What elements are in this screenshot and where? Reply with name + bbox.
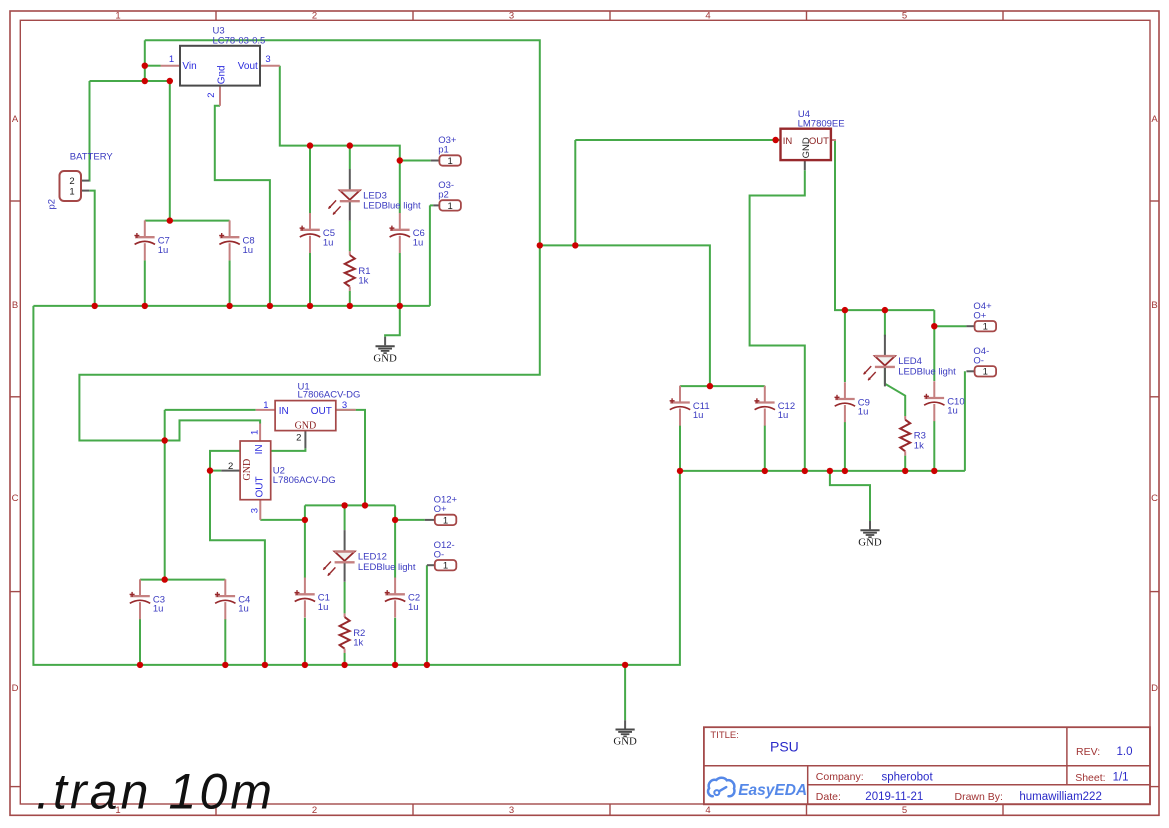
junction [226,303,232,309]
junction [137,662,143,668]
svg-text:Gnd: Gnd [216,65,227,84]
svg-text:4: 4 [705,805,710,816]
svg-text:3: 3 [249,508,260,513]
resistor R1 [345,251,371,291]
wire right section rail [680,470,965,472]
wire C2 bottom [394,618,396,665]
wire LED12 to R2 [344,582,346,614]
wire U4 out run [835,140,934,310]
wire U4 in [575,139,780,141]
O4+ pin stub [966,325,974,327]
svg-text:A: A [12,114,19,125]
connector O3+ p1 [438,135,461,167]
capacitor C4 [215,579,250,619]
capacitor C1 [295,578,330,618]
junction [827,468,833,474]
svg-text:EasyEDA: EasyEDA [738,782,807,799]
capacitor C9 [835,382,870,422]
battery connector P2 [47,151,114,209]
svg-text:1u: 1u [947,406,958,417]
O12- pin stub [427,564,435,566]
svg-text:Sheet:: Sheet: [1075,772,1105,784]
O12+ pin stub [425,519,435,521]
junction [347,142,353,148]
svg-text:IN: IN [783,136,793,147]
wire mid rail [305,504,395,506]
capacitor C8 [219,220,254,260]
svg-text:1u: 1u [158,245,169,256]
svg-text:LEDBlue light: LEDBlue light [363,201,421,212]
junction [167,78,173,84]
junction [622,662,628,668]
connector O4+ O+ [973,301,996,333]
wire U1 pin1 [165,409,256,411]
LED LED3 [329,169,422,221]
wire to U3 pin1 [145,65,161,67]
ground GND left [373,337,397,364]
wire C12 bottom [764,426,766,471]
wire O3- stub [430,204,433,206]
regulator U2 L7806ACV-DG [228,430,336,513]
svg-text:1: 1 [983,367,988,378]
svg-text:2019-11-21: 2019-11-21 [865,791,923,803]
U1 pin3 stub [336,409,356,411]
wire battery pin2 up [88,81,90,181]
svg-text:REV:: REV: [1076,746,1100,758]
junction [931,323,937,329]
wire C2 top [394,505,396,577]
svg-text:C: C [12,493,19,504]
wire O3- down [429,205,431,306]
wire C10 top [933,310,935,381]
svg-text:humawilliam222: humawilliam222 [1019,791,1101,803]
LED LED4 [864,335,957,387]
regulator U1 L7806ACV-DG [263,381,360,443]
svg-text:p2: p2 [438,190,449,201]
junction [142,78,148,84]
junction [302,517,308,523]
junction [902,468,908,474]
capacitor C6 [389,213,424,253]
svg-text:D: D [1151,683,1158,694]
wire to C3C4 rail [164,410,166,580]
wire gnd down mid [210,471,265,665]
svg-text:IN: IN [279,406,289,417]
wire LED3 to R1 [349,221,351,252]
junction [772,137,778,143]
svg-text:2: 2 [206,93,217,98]
O3- pin stub [433,204,439,206]
connector O3- p2 [438,180,461,212]
wire C9 bottom [844,422,846,471]
ground GND right [858,521,882,548]
wire battery to vin [90,80,170,82]
svg-text:1: 1 [983,322,988,333]
svg-text:LEDBlue light: LEDBlue light [358,562,416,573]
svg-text:3: 3 [509,805,514,816]
junction [142,62,148,68]
svg-text:Vin: Vin [182,61,196,72]
svg-text:1u: 1u [693,410,704,421]
svg-text:1u: 1u [323,237,334,248]
svg-text:Drawn By:: Drawn By: [955,791,1003,803]
svg-text:GND: GND [801,137,812,158]
svg-text:Vout: Vout [238,61,258,72]
junction [392,517,398,523]
wire R2 bottom [344,653,346,665]
svg-text:1u: 1u [318,602,329,613]
svg-text:1u: 1u [858,407,869,418]
ground GND bottom [613,720,637,747]
EasyEDA logo [708,778,807,799]
wire to O4+ [934,325,966,327]
svg-text:PSU: PSU [770,739,799,755]
battery pin 1 stub [81,190,89,192]
junction [397,303,403,309]
connector O4- O- [973,346,996,378]
U2 pin3 stub [259,500,261,520]
svg-text:1k: 1k [358,276,368,287]
svg-text:1u: 1u [243,245,254,256]
U4 gnd pin stub [804,160,806,170]
wire to GND1 [385,306,400,337]
wire C9 top [844,310,846,382]
svg-text:L7806ACV-DG: L7806ACV-DG [273,475,336,486]
wire C7C8 top rail [145,220,230,222]
junction [537,242,543,248]
junction [882,307,888,313]
wire LED3 top [349,146,351,169]
svg-text:spherobot: spherobot [882,771,934,783]
resistor R3 [900,416,926,456]
wire to GND2 [624,665,626,720]
junction [341,502,347,508]
junction [341,662,347,668]
svg-text:1u: 1u [408,602,419,613]
svg-text:.tran 10m: .tran 10m [36,763,275,819]
svg-text:1u: 1u [778,410,789,421]
junction [572,242,578,248]
regulator U4 LM7809EE [781,109,845,160]
wire LED12 top [344,505,346,530]
svg-text:1: 1 [115,11,120,22]
wire C5 top [309,146,311,213]
junction [842,307,848,313]
svg-text:3: 3 [265,54,270,65]
svg-text:B: B [12,300,18,311]
svg-text:GND: GND [858,536,882,548]
svg-text:3: 3 [509,11,514,22]
svg-text:p1: p1 [438,145,449,156]
svg-text:2: 2 [296,432,301,443]
svg-text:O-: O- [434,549,445,560]
wire VIN top run [79,40,539,440]
svg-text:1: 1 [249,430,260,435]
svg-text:5: 5 [902,11,907,22]
tiny [679,385,681,387]
wire O4- down [964,371,966,471]
resistor R2 [340,613,366,653]
junction [92,303,98,309]
svg-text:1k: 1k [914,440,924,451]
U1 pin2 stub [304,431,306,449]
wire C3C4 top rail [140,579,225,581]
battery pin 2 stub [81,180,89,182]
capacitor C5 [300,213,335,253]
junction [167,217,173,223]
connector O12- O- [434,540,457,572]
capacitor C3 [130,579,165,619]
svg-text:GND: GND [242,459,253,481]
svg-text:OUT: OUT [311,406,332,417]
wire U1 gnd to U2 gnd [210,448,305,470]
svg-text:4: 4 [705,11,710,22]
U3 pin1 stub [161,65,181,67]
capacitor C12 [754,386,795,426]
U4 out pin stub [831,139,836,141]
svg-text:1u: 1u [153,604,164,615]
svg-text:O-: O- [973,356,984,367]
junction [262,662,268,668]
wire LED4 to R3 [885,368,905,417]
svg-text:O+: O+ [434,504,447,515]
junction [707,383,713,389]
tiny [336,409,356,411]
wire vin drop [144,40,146,81]
U2 pin1 stub [259,424,261,442]
svg-text:1: 1 [443,561,448,572]
svg-text:GND: GND [295,420,317,431]
wire C3 bottom [139,619,141,665]
svg-text:1k: 1k [353,638,363,649]
capacitor C2 [385,578,420,618]
junction [397,157,403,163]
junction [162,437,168,443]
junction [677,468,683,474]
wire U2 out [260,519,305,521]
svg-text:p2: p2 [47,199,58,210]
wire C10 bottom [933,421,935,471]
wire U1 out down [356,410,365,506]
junction [762,468,768,474]
svg-text:2: 2 [312,805,317,816]
svg-text:3: 3 [342,400,347,411]
U3 pin3 stub [260,65,280,67]
junction [931,468,937,474]
svg-text:L7806ACV-DG: L7806ACV-DG [298,390,361,401]
junction [347,303,353,309]
junction [307,303,313,309]
svg-text:1: 1 [443,515,448,526]
svg-text:A: A [1151,114,1158,125]
U3 pin2 stub [219,86,221,106]
svg-text:1: 1 [263,400,268,411]
junction [142,303,148,309]
wire C6 bottom [399,253,401,306]
svg-text:1u: 1u [413,237,424,248]
svg-text:1.0: 1.0 [1117,746,1133,758]
junction [162,576,168,582]
svg-text:2: 2 [228,461,233,472]
junction [307,142,313,148]
svg-text:2: 2 [312,11,317,22]
svg-text:B: B [1151,300,1157,311]
wire C11C12 rail [680,385,765,387]
capacitor C11 [670,386,710,426]
svg-text:GND: GND [373,352,397,364]
junction [392,662,398,668]
O3+ pin stub [431,160,440,162]
svg-text:GND: GND [613,736,637,748]
junction [222,662,228,668]
capacitor C7 [134,220,169,260]
svg-text:OUT: OUT [255,476,266,497]
svg-text:O+: O+ [973,310,986,321]
svg-text:Date:: Date: [816,791,841,803]
wire C4 bottom [224,619,226,665]
svg-text:LEDBlue light: LEDBlue light [898,366,956,377]
capacitor C10 [924,381,965,421]
junction [802,468,808,474]
connector O12+ O+ [434,495,458,527]
title block [704,727,1150,804]
junction [207,467,213,473]
svg-text:1u: 1u [238,604,249,615]
wire C8 bottom [229,260,231,306]
wire mid cross run [540,245,710,386]
junction [302,662,308,668]
U1 pin1 stub [256,409,275,411]
O4- pin stub [966,370,974,372]
wire to C7C8 rail [169,81,171,221]
wire LED4 top [884,310,886,336]
wire U3 vout run [280,66,400,213]
wire C5 bottom [309,253,311,306]
wire C1 bottom [304,618,306,665]
wire C11 bottom [679,426,681,471]
wire to O3+ [400,160,431,162]
svg-text:1: 1 [69,187,74,198]
svg-text:5: 5 [902,805,907,816]
svg-text:LM7809EE: LM7809EE [798,118,845,129]
wire main ground rail [33,306,680,665]
svg-text:1: 1 [447,201,452,212]
svg-text:LC78-03-0.5: LC78-03-0.5 [213,35,266,46]
wire to O12+ [395,519,425,521]
svg-text:BATTERY: BATTERY [70,151,114,162]
wire R3 bottom [904,456,906,471]
svg-text:TITLE:: TITLE: [710,730,739,741]
svg-text:Company:: Company: [816,771,864,783]
wire left section bottom rail [33,305,430,307]
wire C1 top [304,505,306,577]
wire battery pin1 down [89,191,94,306]
svg-text:D: D [12,683,19,694]
wire U2 pin2 link [210,470,221,472]
LED LED12 [323,530,416,582]
svg-text:1/1: 1/1 [1113,772,1129,784]
junction [842,468,848,474]
wire C7 bottom [144,260,146,306]
junction [267,303,273,309]
wire U3 gnd path [215,106,270,306]
svg-text:IN: IN [254,444,265,454]
wire to GND3 [830,471,870,521]
wire U4 in drop [574,140,576,245]
U2 pin2 stub [221,470,240,472]
svg-text:C: C [1151,493,1158,504]
junction [362,502,368,508]
wire R1 bottom [349,291,351,306]
svg-text:1: 1 [169,54,174,65]
wire U4 gnd path [750,170,805,471]
svg-text:1: 1 [447,156,452,167]
regulator U3 LC78-03-0.5 [169,25,271,97]
junction [424,662,430,668]
wire O12- down [426,565,428,665]
